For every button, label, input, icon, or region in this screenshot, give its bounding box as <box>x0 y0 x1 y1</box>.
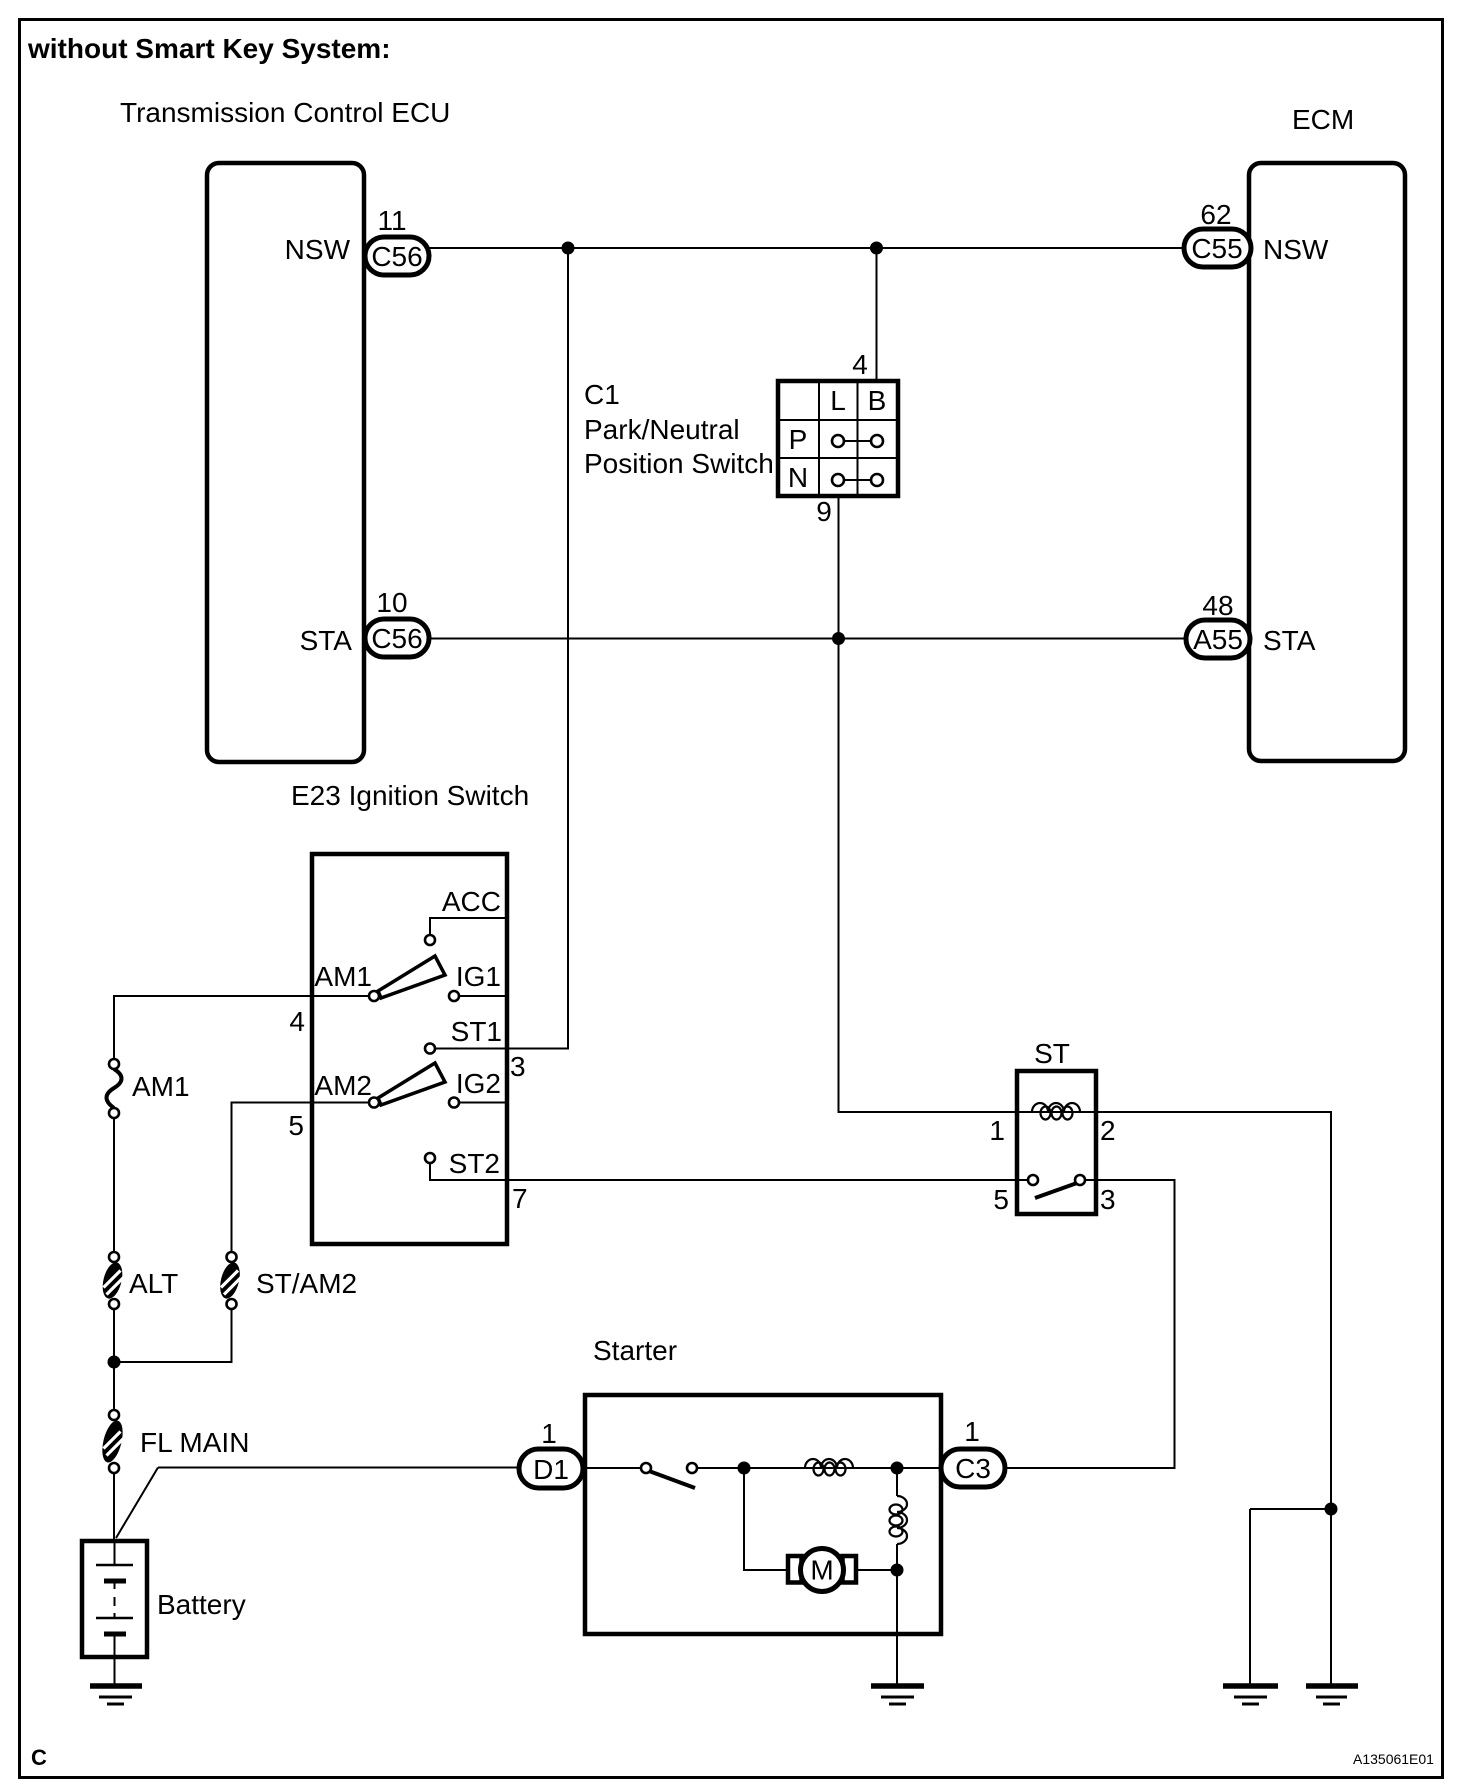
svg-text:4: 4 <box>852 349 868 380</box>
svg-text:Position Switch: Position Switch <box>584 448 774 479</box>
wire relay coil internal <box>1017 1111 1096 1113</box>
ground (relay side B) <box>1306 1686 1358 1704</box>
node junction ST1 riser on NSW wire <box>562 242 575 255</box>
starter switch blade <box>649 1471 695 1488</box>
wire AM1 to fuse <box>114 996 369 1059</box>
svg-text:Starter: Starter <box>593 1335 677 1366</box>
svg-text:C3: C3 <box>955 1453 991 1484</box>
wire ST/AM2 down and over to junction <box>114 1309 232 1362</box>
node junction PNP-9 on STA wire <box>832 632 845 645</box>
svg-text:5: 5 <box>993 1184 1009 1215</box>
wire junction to FL MAIN <box>113 1362 115 1410</box>
svg-text:FL MAIN: FL MAIN <box>140 1427 249 1458</box>
ground (starter) <box>871 1686 924 1704</box>
wire AM2 to fusible link ST/AM2 <box>232 1103 370 1253</box>
wire NSW row <box>429 247 1184 249</box>
svg-text:A55: A55 <box>1193 624 1243 655</box>
switch blade AM2-IG2 <box>378 1063 445 1105</box>
wire ACC <box>430 918 507 935</box>
svg-text:2: 2 <box>1100 1115 1116 1146</box>
wire starter internal left <box>585 1467 641 1469</box>
svg-text:1: 1 <box>989 1115 1005 1146</box>
contact pair row N <box>844 479 871 481</box>
connector A55 pin 48 <box>1186 620 1250 658</box>
node junction PNP-B riser on NSW wire <box>870 242 883 255</box>
svg-text:1: 1 <box>541 1418 557 1449</box>
fuse AM1 <box>107 1059 122 1118</box>
svg-text:L: L <box>830 385 846 416</box>
starter box <box>585 1395 941 1634</box>
wire IG2 <box>459 1102 507 1104</box>
wire battery tap diagonal <box>116 1468 158 1539</box>
wire contact to coil <box>697 1467 941 1469</box>
node junction motor branch <box>738 1462 751 1475</box>
svg-text:Park/Neutral: Park/Neutral <box>584 414 740 445</box>
node junction ALT / ST-AM2 <box>108 1356 121 1369</box>
svg-text:ST: ST <box>1034 1038 1070 1069</box>
svg-text:A135061E01: A135061E01 <box>1353 1751 1434 1767</box>
wire ALT down to junction <box>113 1309 115 1362</box>
svg-text:AM1: AM1 <box>314 961 372 992</box>
svg-text:C56: C56 <box>371 241 422 272</box>
contact IG2 <box>449 1098 459 1108</box>
svg-text:N: N <box>788 462 808 493</box>
svg-text:62: 62 <box>1200 199 1231 230</box>
wire FL MAIN to battery <box>113 1473 115 1541</box>
fusible link FL MAIN <box>99 1410 127 1473</box>
starter magnetic switch contact right <box>687 1463 697 1473</box>
svg-text:IG2: IG2 <box>456 1068 501 1099</box>
svg-text:4: 4 <box>289 1006 305 1037</box>
wire battery to ground <box>114 1657 116 1686</box>
contact IG1 <box>449 991 459 1001</box>
fusible link ST/AM2 <box>217 1252 243 1309</box>
wire ground branch horizontal <box>1250 1508 1331 1510</box>
svg-text:11: 11 <box>377 205 406 236</box>
ground (battery) <box>90 1686 142 1704</box>
svg-text:M: M <box>810 1555 833 1586</box>
ignition switch E23 box <box>312 854 507 1244</box>
node junction ground branch <box>1325 1503 1338 1516</box>
wire battery to D1 <box>158 1467 519 1469</box>
svg-text:C: C <box>31 1745 47 1770</box>
node junction pull-in coil <box>891 1462 904 1475</box>
svg-text:ST/AM2: ST/AM2 <box>256 1268 357 1299</box>
svg-text:10: 10 <box>376 587 407 618</box>
wire pin 4 riser to PNP switch <box>876 248 878 381</box>
svg-text:ST1: ST1 <box>451 1016 502 1047</box>
ground (ECM side A) <box>1223 1686 1278 1704</box>
connector C55 pin 62 <box>1184 229 1251 267</box>
svg-text:STA: STA <box>300 625 353 656</box>
svg-text:C56: C56 <box>371 623 422 654</box>
svg-text:C55: C55 <box>1191 233 1242 264</box>
svg-text:E23 Ignition Switch: E23 Ignition Switch <box>291 780 529 811</box>
wire pin 9 down to relay coil <box>839 496 1018 1112</box>
wire motor to node <box>856 1569 897 1571</box>
connector C56 pin 11 <box>365 237 429 275</box>
connector D1 pin 1 <box>519 1449 583 1488</box>
starter magnetic switch contact left <box>641 1463 651 1473</box>
svg-text:7: 7 <box>512 1183 528 1214</box>
relay ST box <box>1017 1071 1096 1214</box>
svg-text:Transmission Control ECU: Transmission Control ECU <box>120 97 450 128</box>
wire fuse AM1 to fusible link ALT <box>113 1118 115 1252</box>
connector C56 pin 10 <box>365 619 429 657</box>
connector C3 pin 1 <box>941 1449 1005 1487</box>
svg-text:3: 3 <box>1100 1184 1116 1215</box>
contact AM1 <box>369 991 379 1001</box>
relay switch blade <box>1035 1183 1077 1198</box>
svg-text:AM1: AM1 <box>132 1071 190 1102</box>
wire ST1 to NSW node <box>435 248 568 1049</box>
wire STA row <box>429 638 1186 640</box>
svg-text:B: B <box>868 385 887 416</box>
ECM box <box>1249 163 1405 761</box>
svg-text:ALT: ALT <box>129 1268 178 1299</box>
relay switch contact right <box>1075 1175 1085 1185</box>
starter motor M <box>788 1549 856 1592</box>
wire motor branch <box>744 1468 788 1570</box>
contact pair row P <box>844 440 871 442</box>
contact ST2 <box>425 1153 435 1163</box>
wire pull-in coil to motor node and ground <box>896 1544 898 1686</box>
wire to ground A <box>1249 1509 1251 1686</box>
wire relay pin 3 to C3 <box>1005 1180 1175 1468</box>
svg-text:Battery: Battery <box>157 1589 246 1620</box>
relay coil <box>1032 1103 1080 1120</box>
svg-text:48: 48 <box>1202 590 1233 621</box>
wire relay pin 2 to ground <box>1096 1112 1331 1685</box>
svg-text:P: P <box>789 424 808 455</box>
svg-text:AM2: AM2 <box>314 1070 372 1101</box>
svg-text:1: 1 <box>964 1416 980 1447</box>
svg-text:without Smart Key System:: without Smart Key System: <box>27 33 391 64</box>
svg-text:STA: STA <box>1263 625 1316 656</box>
svg-text:5: 5 <box>288 1110 304 1141</box>
park/neutral position switch C1 table <box>778 381 898 496</box>
switch blade AM1-IG1 <box>378 956 445 998</box>
contact ST1 <box>425 1044 435 1054</box>
svg-text:C1: C1 <box>584 379 620 410</box>
contact AM2 <box>369 1098 379 1108</box>
contact ACC <box>425 935 435 945</box>
svg-text:ST2: ST2 <box>449 1148 500 1179</box>
svg-text:3: 3 <box>510 1051 526 1082</box>
fusible link ALT <box>99 1252 125 1309</box>
svg-text:9: 9 <box>816 496 832 527</box>
svg-text:ECM: ECM <box>1292 104 1354 135</box>
svg-text:IG1: IG1 <box>456 961 501 992</box>
svg-text:D1: D1 <box>533 1454 569 1485</box>
solenoid pull-in coil (vertical) <box>896 1468 898 1496</box>
relay switch contact left <box>1028 1175 1038 1185</box>
wire ST2 to relay pin 5 <box>430 1163 1029 1180</box>
svg-text:ACC: ACC <box>442 886 501 917</box>
svg-text:NSW: NSW <box>285 234 351 265</box>
svg-text:NSW: NSW <box>1263 234 1329 265</box>
battery <box>82 1541 147 1657</box>
node junction motor right <box>891 1564 904 1577</box>
solenoid hold-in coil (horizontal) <box>805 1459 853 1476</box>
wire IG1 <box>459 995 507 997</box>
Transmission Control ECU box <box>207 163 364 762</box>
